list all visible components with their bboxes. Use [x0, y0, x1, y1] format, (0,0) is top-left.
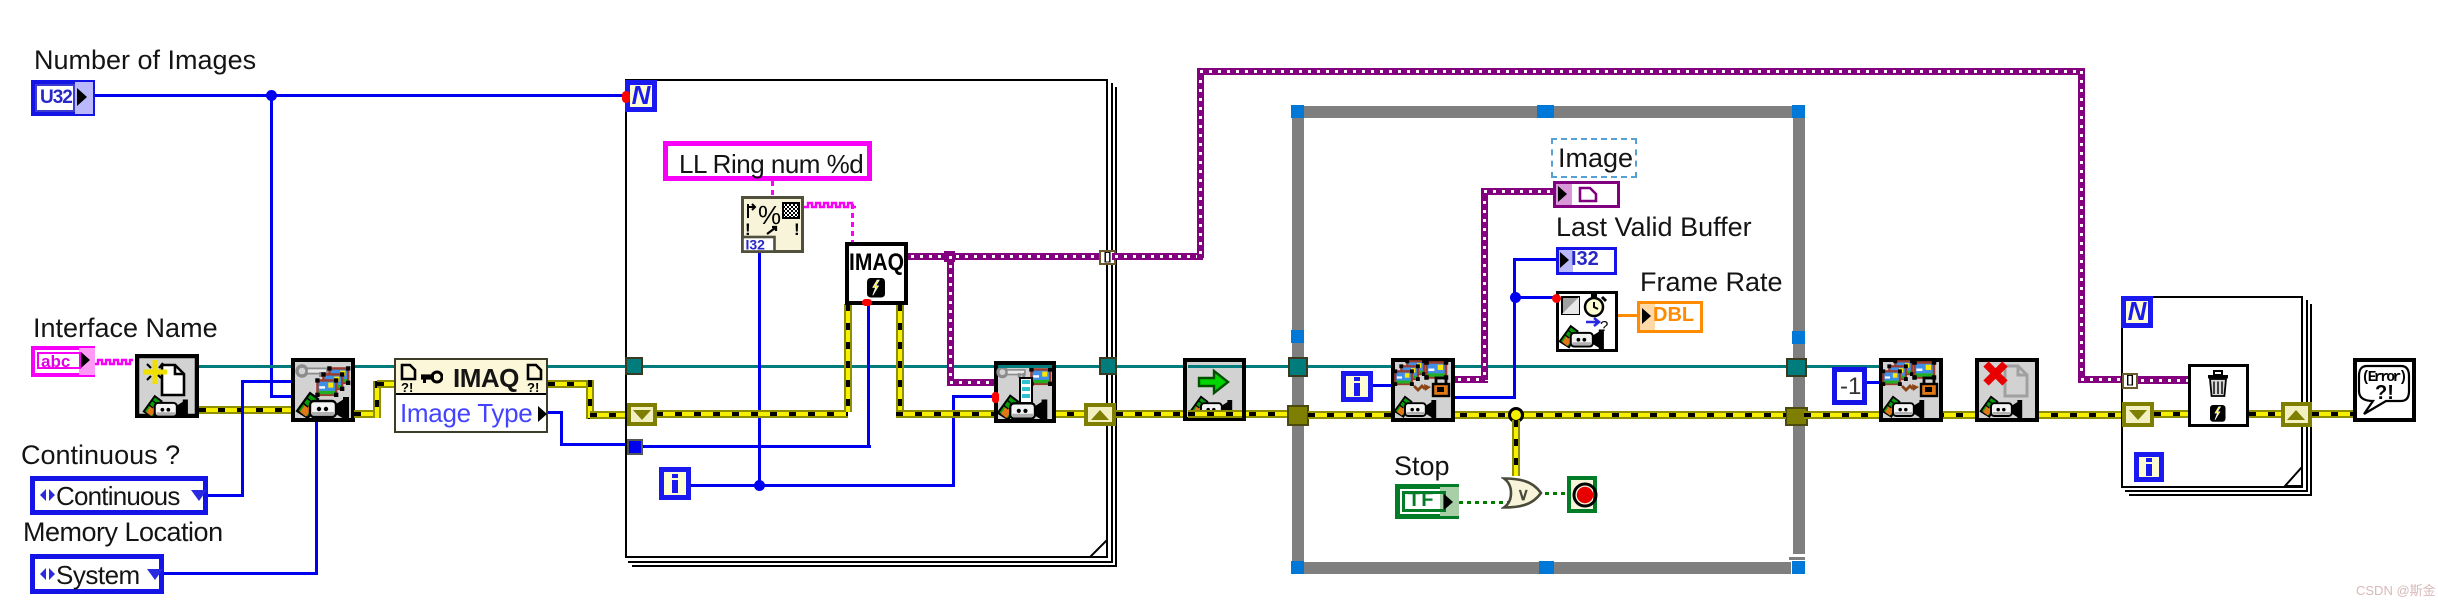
- wire error loop1 to while loop (yellow-black): [1116, 410, 1292, 418]
- wire error loop 2 to error out: [2312, 410, 2357, 418]
- wire Image Type drop (blue, vertical): [560, 411, 563, 446]
- wire i into Configure Buffer (blue): [952, 395, 994, 398]
- wire TF to Or (green dotted): [1459, 501, 1508, 504]
- node IMAQ Unconfigure icon (red X): [1975, 358, 2039, 422]
- selection handle bottom-right: [1792, 561, 1805, 574]
- wire teal over Start icon: [1188, 365, 1242, 368]
- wire image array riser (purple, vertical): [1197, 68, 1204, 258]
- tunnel blue (Image Type) on loop 1: [627, 439, 643, 455]
- terminal N of loop 2: [2121, 296, 2153, 328]
- label Continuous ?: [21, 441, 180, 471]
- coercion mark on Configure Buffer: [992, 392, 999, 403]
- junction dot on i wire: [754, 480, 765, 491]
- tunnel indexing [] on loop 2: [2122, 373, 2138, 389]
- terminal i of loop 1: [659, 467, 691, 500]
- junction on image wire (purple): [944, 251, 955, 262]
- wire error riser into IMAQ vi (yellow-black): [844, 304, 852, 412]
- terminal i of loop 2: [2134, 452, 2164, 482]
- wire error into loop 2: [2154, 410, 2281, 418]
- node IMAQ Extract Buffer 2 icon: [1879, 358, 1943, 422]
- indicator Image (IMAQ image ref): [1553, 181, 1620, 208]
- wire format output (pink): [804, 200, 856, 210]
- shift register left of loop 2: [2122, 402, 2154, 427]
- While Loop right border: [1793, 106, 1805, 554]
- wire U32 branch down (blue, vertical): [270, 94, 273, 398]
- wire Image Type out of constant (blue): [548, 411, 563, 414]
- For Loop 1 stacked frame line 2 (bottom): [628, 561, 1113, 563]
- wire image out of IMAQ vi (purple chain): [908, 253, 1107, 260]
- wire System to Configure, vertical riser: [315, 421, 318, 575]
- control abc Interface Name (string): [31, 346, 95, 377]
- wire error drop from IMAQ vi (yellow-black): [896, 304, 904, 412]
- control enum System: [30, 554, 164, 594]
- selection handle bottom-left: [1291, 561, 1304, 574]
- wire Image Type riser to IMAQ vi (blue, vertical): [867, 305, 870, 448]
- label Last Valid Buffer: [1556, 213, 1752, 243]
- label Interface Name: [33, 314, 218, 344]
- node IMAQ Extract Buffer icon (images + lock): [1391, 358, 1455, 422]
- wire image into Image indicator (purple): [1481, 188, 1553, 195]
- wire U32 branch into IMAQ Configure (blue, horizontal): [270, 395, 291, 398]
- shift register right of loop 2: [2281, 402, 2312, 427]
- node IMAQ frame rate property icon: [1556, 291, 1618, 352]
- constant IMAQ session / Image Type: [394, 358, 548, 433]
- coercion dot on frame rate icon: [1552, 294, 1561, 303]
- wire U32 to For-loop N (blue, horizontal): [95, 94, 625, 97]
- control U32 Number of Images: [31, 80, 95, 116]
- indicator Image label (selected): [1551, 138, 1637, 178]
- shift register left of loop 1: [627, 403, 657, 426]
- wire error after while loop: [1804, 411, 2122, 419]
- structure For Loop 2 frame: [2121, 296, 2303, 488]
- wire junction dot: [266, 90, 277, 101]
- wire image into Configure Buffer (purple): [947, 379, 994, 386]
- node Format Into String icon: [741, 196, 804, 253]
- structure While Loop left border: [1292, 106, 1304, 574]
- label Frame Rate: [1640, 268, 1783, 298]
- svg-text:I32: I32: [746, 237, 766, 253]
- wire error inside while loop: [1308, 411, 1786, 419]
- control TF Stop (boolean): [1395, 484, 1459, 519]
- wire Or to stop button (green dotted): [1545, 492, 1569, 495]
- label Stop: [1394, 452, 1450, 482]
- wire frame rate to DBL (orange): [1618, 314, 1637, 317]
- tunnel teal right of loop 1: [1099, 357, 1117, 375]
- While Loop top border: [1292, 106, 1805, 118]
- svg-text:?!: ?!: [527, 380, 539, 393]
- tunnel teal left of loop 1: [625, 357, 643, 375]
- node IMAQ Dispose icon (trash): [2188, 364, 2249, 427]
- indicator error out (speech bubble): [2353, 358, 2416, 422]
- svg-text:IMAQ: IMAQ: [849, 249, 904, 276]
- wire Continuous to Configure, horizontal from enum: [208, 494, 244, 497]
- svg-text:!: !: [794, 220, 800, 239]
- node IMAQ Start icon (green arrow): [1183, 358, 1246, 421]
- wire image array out of loop tunnel (purple chain): [1112, 253, 1203, 260]
- tunnel error left of while loop: [1287, 405, 1309, 426]
- wire buffer number riser (blue, vertical): [1513, 259, 1516, 398]
- For Loop 1 stacked frame line 3 (bottom): [632, 565, 1117, 567]
- label Number of Images: [34, 46, 256, 76]
- For Loop 1 stacked frame line 3 (right): [1115, 87, 1117, 567]
- control stop button (red): [1567, 476, 1597, 513]
- wire image array drop to loop 2 (purple, vertical): [2078, 68, 2085, 381]
- wire error Create to Configure (yellow-black): [199, 406, 291, 414]
- junction dot on error wire: [1508, 407, 1524, 423]
- node IMAQ Create icon: [135, 354, 199, 418]
- tunnel teal left of while loop: [1288, 357, 1308, 377]
- watermark: [2356, 580, 2436, 599]
- fold corner of loop 1: [1089, 539, 1108, 558]
- wire IMAQ session out of Create (teal, horizontal, runs to while loop): [199, 365, 1879, 368]
- For Loop 2 stacked line 3 (bottom): [2129, 494, 2312, 496]
- wire image branch down (purple, vertical): [947, 253, 954, 383]
- For Loop 2 stacked line 2 (bottom): [2125, 490, 2308, 492]
- wire buffer number into I32 (blue): [1513, 258, 1556, 261]
- For Loop 1 stacked frame line 2 (right): [1111, 83, 1113, 563]
- For Loop 2 stacked line 2 (right): [2306, 300, 2308, 492]
- coercion dot on N: [622, 91, 630, 103]
- wire image Extract to Image indicator (purple): [1455, 376, 1488, 383]
- junction dot on buffer wire: [1510, 292, 1521, 303]
- tunnel teal right of while loop: [1786, 358, 1807, 377]
- tunnel error right of while loop: [1785, 407, 1808, 426]
- wire Image Type inside loop (blue): [641, 445, 871, 448]
- For Loop 2 stacked line 3 (right): [2310, 304, 2312, 496]
- coercion dot under IMAQ vi: [862, 299, 872, 306]
- wire -1 to Extract2 (blue): [1867, 381, 1879, 384]
- indicator DBL Frame Rate: [1637, 301, 1703, 333]
- indicator I32 Last Valid Buffer: [1556, 247, 1617, 275]
- node IMAQ Configure Buffer icon: [994, 361, 1056, 423]
- tunnel indexing [] on loop 1 right: [1099, 250, 1116, 265]
- wire i to Extract icon (blue): [1373, 384, 1391, 387]
- selection handle right-middle: [1792, 331, 1805, 344]
- label Memory Location: [23, 518, 223, 548]
- wire image riser to indicator (purple, vertical): [1481, 189, 1488, 380]
- While Loop bottom-right corner line: [1789, 557, 1805, 560]
- wire i riser to Configure Buffer (blue, vertical): [952, 397, 955, 487]
- node IMAQ Configure List icon: [291, 358, 355, 422]
- svg-text:∨: ∨: [1517, 485, 1529, 504]
- wire error branch down to Or (yellow-black, vertical): [1512, 420, 1520, 476]
- wire error raised run behind constant (yellow-black): [377, 380, 590, 388]
- selection handle left-middle: [1291, 330, 1304, 343]
- svg-text:%: %: [758, 200, 781, 230]
- node Or gate: [1501, 476, 1547, 510]
- shift register right of loop 1: [1084, 403, 1116, 426]
- wire buffer number out of Extract (blue): [1455, 396, 1516, 399]
- control enum Continuous: [30, 476, 208, 515]
- While Loop bottom border: [1292, 562, 1791, 574]
- selection handle top-left: [1291, 105, 1304, 118]
- wire branch into frame rate node (blue): [1513, 296, 1556, 299]
- wire string squiggle abc to IMAQ Create (pink): [95, 357, 135, 367]
- wire image array into loop 2 tunnel (purple): [2078, 376, 2188, 383]
- wire image tunnel to Dispose (purple): [2138, 377, 2188, 384]
- wire Image Type into loop tunnel (blue): [560, 443, 641, 446]
- wire i branch up to Format (blue, vertical): [758, 253, 761, 487]
- svg-text:?!: ?!: [2375, 382, 2394, 404]
- wire teal over Configure Buffer icon: [998, 365, 1052, 368]
- wire error drop down (yellow-black): [586, 380, 594, 419]
- wire Continuous to Configure, horizontal into node: [241, 380, 291, 383]
- node IMAQ Create-in-loop icon (lightning): [845, 242, 908, 305]
- wire error into left shift register (yellow-black): [590, 411, 641, 419]
- constant string LL Ring num %d: [663, 141, 872, 181]
- wire i horizontal run (blue): [691, 484, 955, 487]
- wire error to Configure Buffer (yellow-black): [896, 410, 1088, 418]
- fold corner of loop 2: [2284, 466, 2303, 487]
- wire error riser up (yellow-black): [373, 381, 381, 418]
- wire error over Start icon: [1188, 410, 1242, 418]
- selection handle top-right: [1792, 105, 1805, 118]
- wire error out of Configure (yellow-black): [354, 410, 381, 418]
- wire Continuous to Configure, vertical riser: [241, 380, 244, 497]
- wire image array top bus (purple chain): [1197, 68, 2085, 75]
- wire error from shift register to IMAQ vi (yellow-black): [656, 410, 848, 418]
- selection handle top-middle: [1537, 105, 1554, 118]
- svg-text:?!: ?!: [401, 380, 413, 393]
- constant -1: [1832, 367, 1867, 405]
- terminal i of while loop: [1341, 371, 1373, 402]
- wire System to Configure, horizontal from enum: [164, 572, 318, 575]
- wire string constant to Format (pink dotted): [771, 181, 774, 196]
- selection handle bottom-middle: [1539, 561, 1554, 574]
- structure For Loop 1 frame: [625, 79, 1108, 558]
- terminal N of loop 1: [625, 80, 657, 112]
